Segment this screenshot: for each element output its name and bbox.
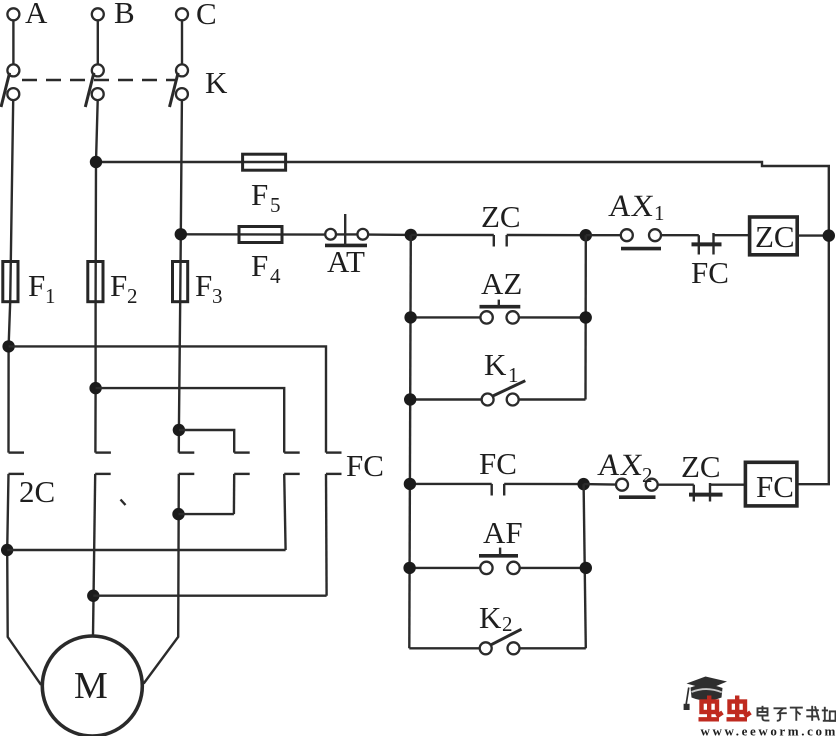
watermark cap board	[687, 677, 728, 690]
svg-text:F: F	[195, 268, 212, 303]
wire C terminal to switch	[181, 21, 183, 65]
wire col4 lower	[233, 474, 236, 514]
contactor FC contact col5	[284, 451, 300, 453]
coil FC	[745, 462, 797, 506]
wire crossover A to col6	[9, 346, 326, 452]
watermark site name (电子下载站 simplified strokes)	[758, 706, 836, 721]
contact FC (NC, breaks row4)	[491, 484, 493, 496]
svg-text:K: K	[484, 347, 507, 382]
node row1 right rail	[580, 229, 592, 241]
svg-text:B: B	[114, 0, 135, 30]
svg-text:F: F	[110, 268, 127, 303]
svg-text:ZC: ZC	[681, 449, 721, 484]
wire col6 lower	[325, 474, 328, 596]
coil ZC	[750, 217, 798, 255]
wire phase C down (through F3)	[179, 100, 182, 452]
contactor FC contact col4	[234, 451, 250, 453]
pushbutton AT (NC stop)	[325, 229, 336, 240]
wire	[658, 484, 694, 486]
node K1 left	[404, 393, 416, 405]
wire phase B down (through F2)	[95, 100, 97, 452]
wire tie col2-col6	[93, 595, 326, 597]
fuse F3	[173, 262, 188, 302]
fuse F2	[88, 262, 103, 302]
svg-text:FC: FC	[346, 448, 384, 483]
wire	[714, 234, 750, 236]
contact FC (NC old style)	[698, 235, 700, 254]
wire	[710, 484, 745, 486]
wire col5 lower	[284, 474, 285, 550]
wire	[586, 234, 621, 236]
switch K pole B	[92, 64, 104, 76]
node col3 bottom	[172, 508, 184, 520]
svg-text:F: F	[251, 248, 268, 283]
wire left rail	[409, 235, 411, 648]
wire AZ row	[411, 316, 481, 318]
wire col3 lower to motor	[144, 474, 179, 684]
fuse F4	[239, 227, 282, 243]
node AF left	[403, 562, 415, 574]
fuse F1	[3, 262, 18, 302]
wire crossover C to col4	[179, 430, 234, 453]
watermark cap highlight	[692, 689, 722, 692]
wire phase A down (through F1 to contact col1)	[9, 100, 14, 452]
node FC row left	[404, 478, 416, 490]
wire	[520, 567, 586, 569]
wire tie col1-col5	[7, 549, 285, 551]
svg-text:1: 1	[654, 201, 665, 225]
svg-text:C: C	[196, 0, 217, 31]
svg-text:A: A	[25, 0, 48, 30]
node right bus	[823, 229, 835, 241]
svg-text:AT: AT	[327, 244, 365, 279]
watermark cap body	[691, 685, 723, 701]
node col1 bottom	[1, 544, 13, 556]
svg-text:4: 4	[270, 264, 281, 288]
node A row346	[2, 340, 14, 352]
svg-text:K: K	[479, 600, 502, 635]
watermark tassel	[686, 688, 689, 705]
wire	[584, 483, 616, 486]
terminal C	[176, 8, 188, 20]
fuse F5	[243, 154, 286, 170]
node AZ right	[580, 311, 592, 323]
node AF right	[580, 562, 592, 574]
switch K pole A	[7, 64, 19, 76]
svg-text:5: 5	[270, 193, 281, 217]
svg-text:ZC: ZC	[755, 219, 795, 254]
node AZ left	[404, 311, 416, 323]
wire right rail lower	[584, 484, 586, 648]
terminal B	[92, 8, 104, 20]
svg-text:FC: FC	[691, 255, 729, 290]
svg-text:ZC: ZC	[481, 199, 521, 234]
switch contact K1	[482, 394, 494, 406]
stray tick	[121, 500, 126, 506]
wire K1 row	[410, 398, 481, 400]
wire tie col3-col4	[179, 513, 234, 515]
wire	[661, 234, 699, 236]
motor M	[42, 636, 142, 736]
svg-text:F: F	[28, 268, 45, 303]
contact ZC (NC old style)	[693, 485, 695, 502]
watermark chongchong char1	[699, 696, 723, 720]
node C row430	[173, 424, 185, 436]
svg-text:2C: 2C	[19, 474, 55, 509]
svg-text:AZ: AZ	[481, 266, 522, 301]
wire col1 lower to motor	[7, 474, 41, 685]
wire	[519, 316, 586, 319]
node B-F5	[90, 156, 102, 168]
contactor FC contact col6	[326, 451, 342, 453]
svg-text:2: 2	[502, 612, 513, 636]
wire F4 row	[181, 233, 325, 236]
wire FC row	[410, 483, 492, 485]
wire	[504, 483, 583, 486]
svg-text:1: 1	[45, 284, 56, 308]
contactor 2C contact col2	[95, 451, 111, 453]
terminal A	[7, 8, 19, 20]
svg-text:www.eeworm.com: www.eeworm.com	[701, 724, 836, 736]
contact AX2 (NO)	[616, 479, 628, 491]
svg-text:2: 2	[642, 463, 653, 487]
svg-text:1: 1	[508, 363, 519, 387]
node FC row right	[577, 478, 589, 490]
pushbutton AF (NO start)	[480, 562, 492, 574]
svg-text:F: F	[251, 177, 268, 212]
wire K2 row	[409, 647, 479, 649]
wire right rail upper	[584, 235, 587, 399]
wire row1 to ZC contact	[411, 234, 494, 237]
svg-text:AF: AF	[483, 515, 523, 550]
svg-text:2: 2	[127, 284, 138, 308]
wire F5 top line and right bus	[96, 162, 829, 484]
node B row388	[89, 382, 101, 394]
switch K pole C	[176, 64, 188, 76]
svg-text:FC: FC	[479, 446, 517, 481]
wire AF row	[410, 567, 481, 569]
svg-text:M: M	[74, 665, 108, 707]
wire	[507, 234, 586, 237]
wire B terminal to switch	[97, 21, 99, 65]
svg-text:K: K	[205, 65, 228, 100]
svg-text:3: 3	[212, 284, 223, 308]
wire AT to node	[368, 233, 411, 236]
wire A terminal to switch	[12, 21, 14, 65]
switch K linkage dashed line	[22, 79, 175, 82]
contactor 2C contact col1	[9, 451, 25, 453]
switch contact K2	[480, 642, 492, 654]
contact ZC (NC, breaks row1)	[493, 235, 495, 247]
node row1 left rail	[405, 229, 417, 241]
wire coil to bus	[797, 234, 829, 236]
svg-text:FC: FC	[756, 469, 794, 504]
wire crossover B to col5	[96, 388, 285, 453]
watermark chongchong char2	[727, 696, 751, 720]
node C-F4	[175, 228, 187, 240]
contact AX1 (NO)	[621, 229, 633, 241]
wire col2 lower to motor	[93, 474, 95, 636]
svg-text:AX: AX	[607, 188, 655, 223]
contactor 2C contact col3	[179, 451, 195, 453]
node col2 bottom	[87, 590, 99, 602]
pushbutton AZ (NO start)	[480, 311, 492, 323]
svg-text:AX: AX	[596, 447, 644, 482]
